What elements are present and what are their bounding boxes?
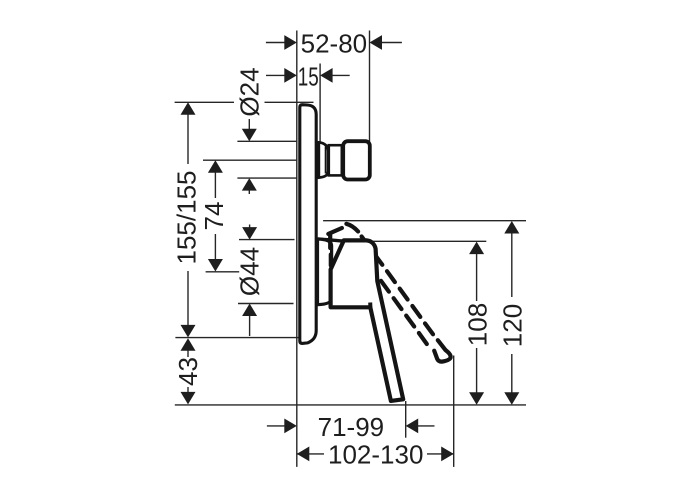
- wire lever tip level extension: [175, 404, 526, 406]
- dimension 71-99: [267, 412, 435, 442]
- sleeve inner rim: [325, 147, 327, 174]
- wire plate bottom extension: [175, 337, 315, 339]
- svg-text:102-130: 102-130: [328, 440, 423, 470]
- handle hub (sleeve of lever): [318, 239, 346, 241]
- svg-text:71-99: 71-99: [318, 412, 385, 442]
- wire 108 top extension: [371, 240, 487, 242]
- dimension 108: [462, 242, 492, 405]
- wire spindle axis extension 74: [203, 159, 297, 161]
- svg-text:15: 15: [298, 62, 319, 92]
- wire hub top extension: [239, 239, 295, 241]
- svg-text:Ø44: Ø44: [235, 247, 265, 296]
- wire spindle bottom extension: [237, 177, 296, 179]
- dimension 155/155: [172, 102, 202, 337]
- dimension 102-130: [297, 440, 454, 470]
- wire spindle top extension: [237, 140, 296, 142]
- dimension diameter 44: [235, 225, 265, 337]
- solid lever handle (neck + arm): [331, 240, 404, 401]
- spindle cylinder: [329, 145, 342, 175]
- wire solid tip extension: [405, 401, 407, 438]
- dimension 120: [498, 221, 528, 405]
- wire top extension 155/155: [175, 101, 234, 103]
- dimension 15: [266, 62, 350, 92]
- svg-text:108: 108: [462, 303, 492, 346]
- wire lever axis extension 74 bottom: [206, 271, 240, 273]
- svg-text:Ø24: Ø24: [234, 67, 264, 116]
- dimension 74: [199, 160, 229, 271]
- sleeve cone on spindle: [319, 142, 329, 177]
- wire 120 top extension: [323, 220, 526, 222]
- dashed raised lever upper edge: [362, 237, 433, 335]
- svg-text:43: 43: [173, 357, 203, 386]
- wire right extension of 15: [319, 64, 321, 142]
- dimension 52-80: [266, 29, 402, 59]
- svg-text:52-80: 52-80: [301, 29, 368, 59]
- wire hub bottom extension: [238, 303, 294, 305]
- escutcheon plate (side view): [300, 105, 316, 344]
- svg-text:74: 74: [199, 202, 229, 231]
- dashed raised lever lower edge: [381, 281, 427, 344]
- wire dashed tip extension: [453, 356, 455, 467]
- wire wall extension line: [296, 31, 298, 467]
- dimension diameter 24: [234, 67, 264, 194]
- svg-text:155/155: 155/155: [172, 171, 202, 265]
- svg-text:120: 120: [498, 304, 528, 347]
- dashed raised handle grip arc: [328, 224, 358, 266]
- wire right extension of 52-80: [369, 31, 371, 142]
- dimension 43: [173, 338, 203, 404]
- spindle knob: [343, 141, 370, 179]
- lever left edge stub: [368, 303, 372, 308]
- dashed lever end cap: [434, 340, 450, 361]
